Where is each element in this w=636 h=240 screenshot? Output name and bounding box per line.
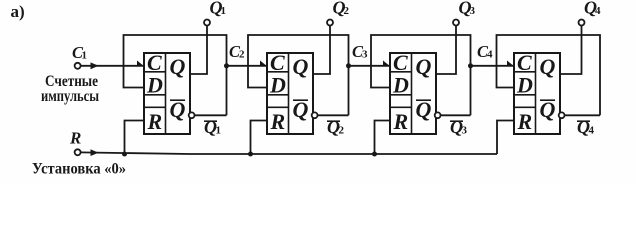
svg-text:Установка «0»: Установка «0» xyxy=(32,161,126,178)
svg-text:3: 3 xyxy=(362,49,368,61)
input terminal C1 xyxy=(75,63,81,69)
svg-text:1: 1 xyxy=(216,125,222,137)
wire U4 Q output riser xyxy=(560,26,582,75)
U1 input field divider xyxy=(165,53,167,134)
U2 C/D separator xyxy=(267,71,289,73)
svg-text:1: 1 xyxy=(82,50,88,62)
svg-text:D: D xyxy=(146,73,163,98)
wire U4 Qbar to loop xyxy=(565,114,601,116)
svg-text:4: 4 xyxy=(487,49,493,61)
U3 C/D separator xyxy=(390,71,412,73)
U2 input field divider xyxy=(288,53,290,134)
wire R feed to U4 xyxy=(497,121,514,155)
svg-text:R: R xyxy=(393,109,409,134)
svg-text:D: D xyxy=(516,73,533,98)
junction on reset rail stage 1 xyxy=(122,152,127,157)
U4 C/D separator xyxy=(514,71,536,73)
svg-text:3: 3 xyxy=(462,125,468,137)
svg-text:Q: Q xyxy=(293,54,309,79)
U4 R field top line xyxy=(514,106,536,108)
junction node C3 xyxy=(346,63,351,68)
input terminal R xyxy=(75,149,81,155)
svg-text:импульсы: импульсы xyxy=(41,88,99,105)
svg-text:R: R xyxy=(147,109,163,134)
svg-text:D: D xyxy=(392,73,409,98)
wire U2 Qbar to loop xyxy=(318,114,349,116)
signal arrow R xyxy=(91,149,99,156)
wire U4 feedback loop Qbar to D xyxy=(497,35,601,115)
U2 R field top line xyxy=(267,106,289,108)
svg-text:1: 1 xyxy=(221,5,227,17)
wire U3 Qbar to loop xyxy=(441,114,471,116)
U3 D/R separator xyxy=(390,94,412,96)
wire C2 to U2 xyxy=(227,65,268,67)
svg-text:2: 2 xyxy=(239,49,245,61)
wire U1 Qbar to loop xyxy=(195,114,227,116)
svg-text:4: 4 xyxy=(595,5,601,17)
svg-text:Q: Q xyxy=(170,54,186,79)
svg-text:2: 2 xyxy=(339,125,345,137)
U1 dynamic C input arrow xyxy=(137,61,144,66)
junction on reset rail stage 2 xyxy=(248,152,253,157)
wire U3 Q output riser xyxy=(436,26,456,75)
U1 C/D separator xyxy=(144,71,166,73)
U4 input field divider xyxy=(535,53,537,134)
U3 R field top line xyxy=(390,106,412,108)
wire U2 feedback loop Qbar to D xyxy=(248,35,349,115)
U3 inversion bubble on Qbar xyxy=(435,112,441,118)
svg-text:4: 4 xyxy=(589,125,595,137)
svg-text:C: C xyxy=(393,50,408,75)
U4 dynamic C input arrow xyxy=(507,61,514,66)
output terminal Q1 xyxy=(204,20,210,26)
svg-text:3: 3 xyxy=(470,5,476,17)
text Schetnye impulsy xyxy=(41,73,99,105)
U4 D/R separator xyxy=(514,94,536,96)
junction node C4 xyxy=(468,63,473,68)
svg-text:R: R xyxy=(69,129,81,148)
junction node C2 xyxy=(224,63,229,68)
U1 D/R separator xyxy=(144,94,166,96)
wire U2 Q output riser xyxy=(313,26,330,75)
junction on reset rail stage 3 xyxy=(372,152,377,157)
U2 D/R separator xyxy=(267,94,289,96)
svg-text:C: C xyxy=(147,50,162,75)
output terminal Q2 xyxy=(327,20,333,26)
flip-flop U3 body xyxy=(390,53,436,134)
svg-text:C: C xyxy=(270,50,285,75)
wire U1 feedback loop Qbar to D xyxy=(124,35,227,115)
U1 inversion bubble on Qbar xyxy=(189,112,195,118)
wire R feed to U1 xyxy=(125,121,145,155)
svg-text:2: 2 xyxy=(344,5,350,17)
svg-text:R: R xyxy=(517,109,533,134)
wire C3 to U3 xyxy=(349,65,391,67)
wire C4 to U4 xyxy=(471,65,515,67)
flip-flop U4 body xyxy=(514,53,560,134)
wire R feed to U2 xyxy=(251,121,268,155)
output terminal Q3 xyxy=(453,20,459,26)
flip-flop U1 body xyxy=(144,53,190,134)
signal arrow C1 xyxy=(91,62,99,69)
U3 dynamic C input arrow xyxy=(383,61,390,66)
wire C1 to FF1 C input xyxy=(81,65,144,67)
svg-text:Q: Q xyxy=(540,54,556,79)
U2 inversion bubble on Qbar xyxy=(312,112,318,118)
wire R reset rail xyxy=(81,152,497,154)
U2 dynamic C input arrow xyxy=(260,61,267,66)
svg-text:D: D xyxy=(269,73,286,98)
U3 input field divider xyxy=(411,53,413,134)
svg-text:а): а) xyxy=(11,2,25,21)
svg-text:Q: Q xyxy=(416,54,432,79)
flip-flop U2 body xyxy=(267,53,313,134)
svg-text:R: R xyxy=(270,109,286,134)
wire R feed to U3 xyxy=(375,121,391,155)
wire U3 feedback loop Qbar to D xyxy=(371,35,471,115)
wire U1 Q output riser xyxy=(190,26,207,75)
output terminal Q4 xyxy=(579,20,585,26)
U1 R field top line xyxy=(144,106,166,108)
svg-text:C: C xyxy=(517,50,532,75)
U4 inversion bubble on Qbar xyxy=(559,112,565,118)
